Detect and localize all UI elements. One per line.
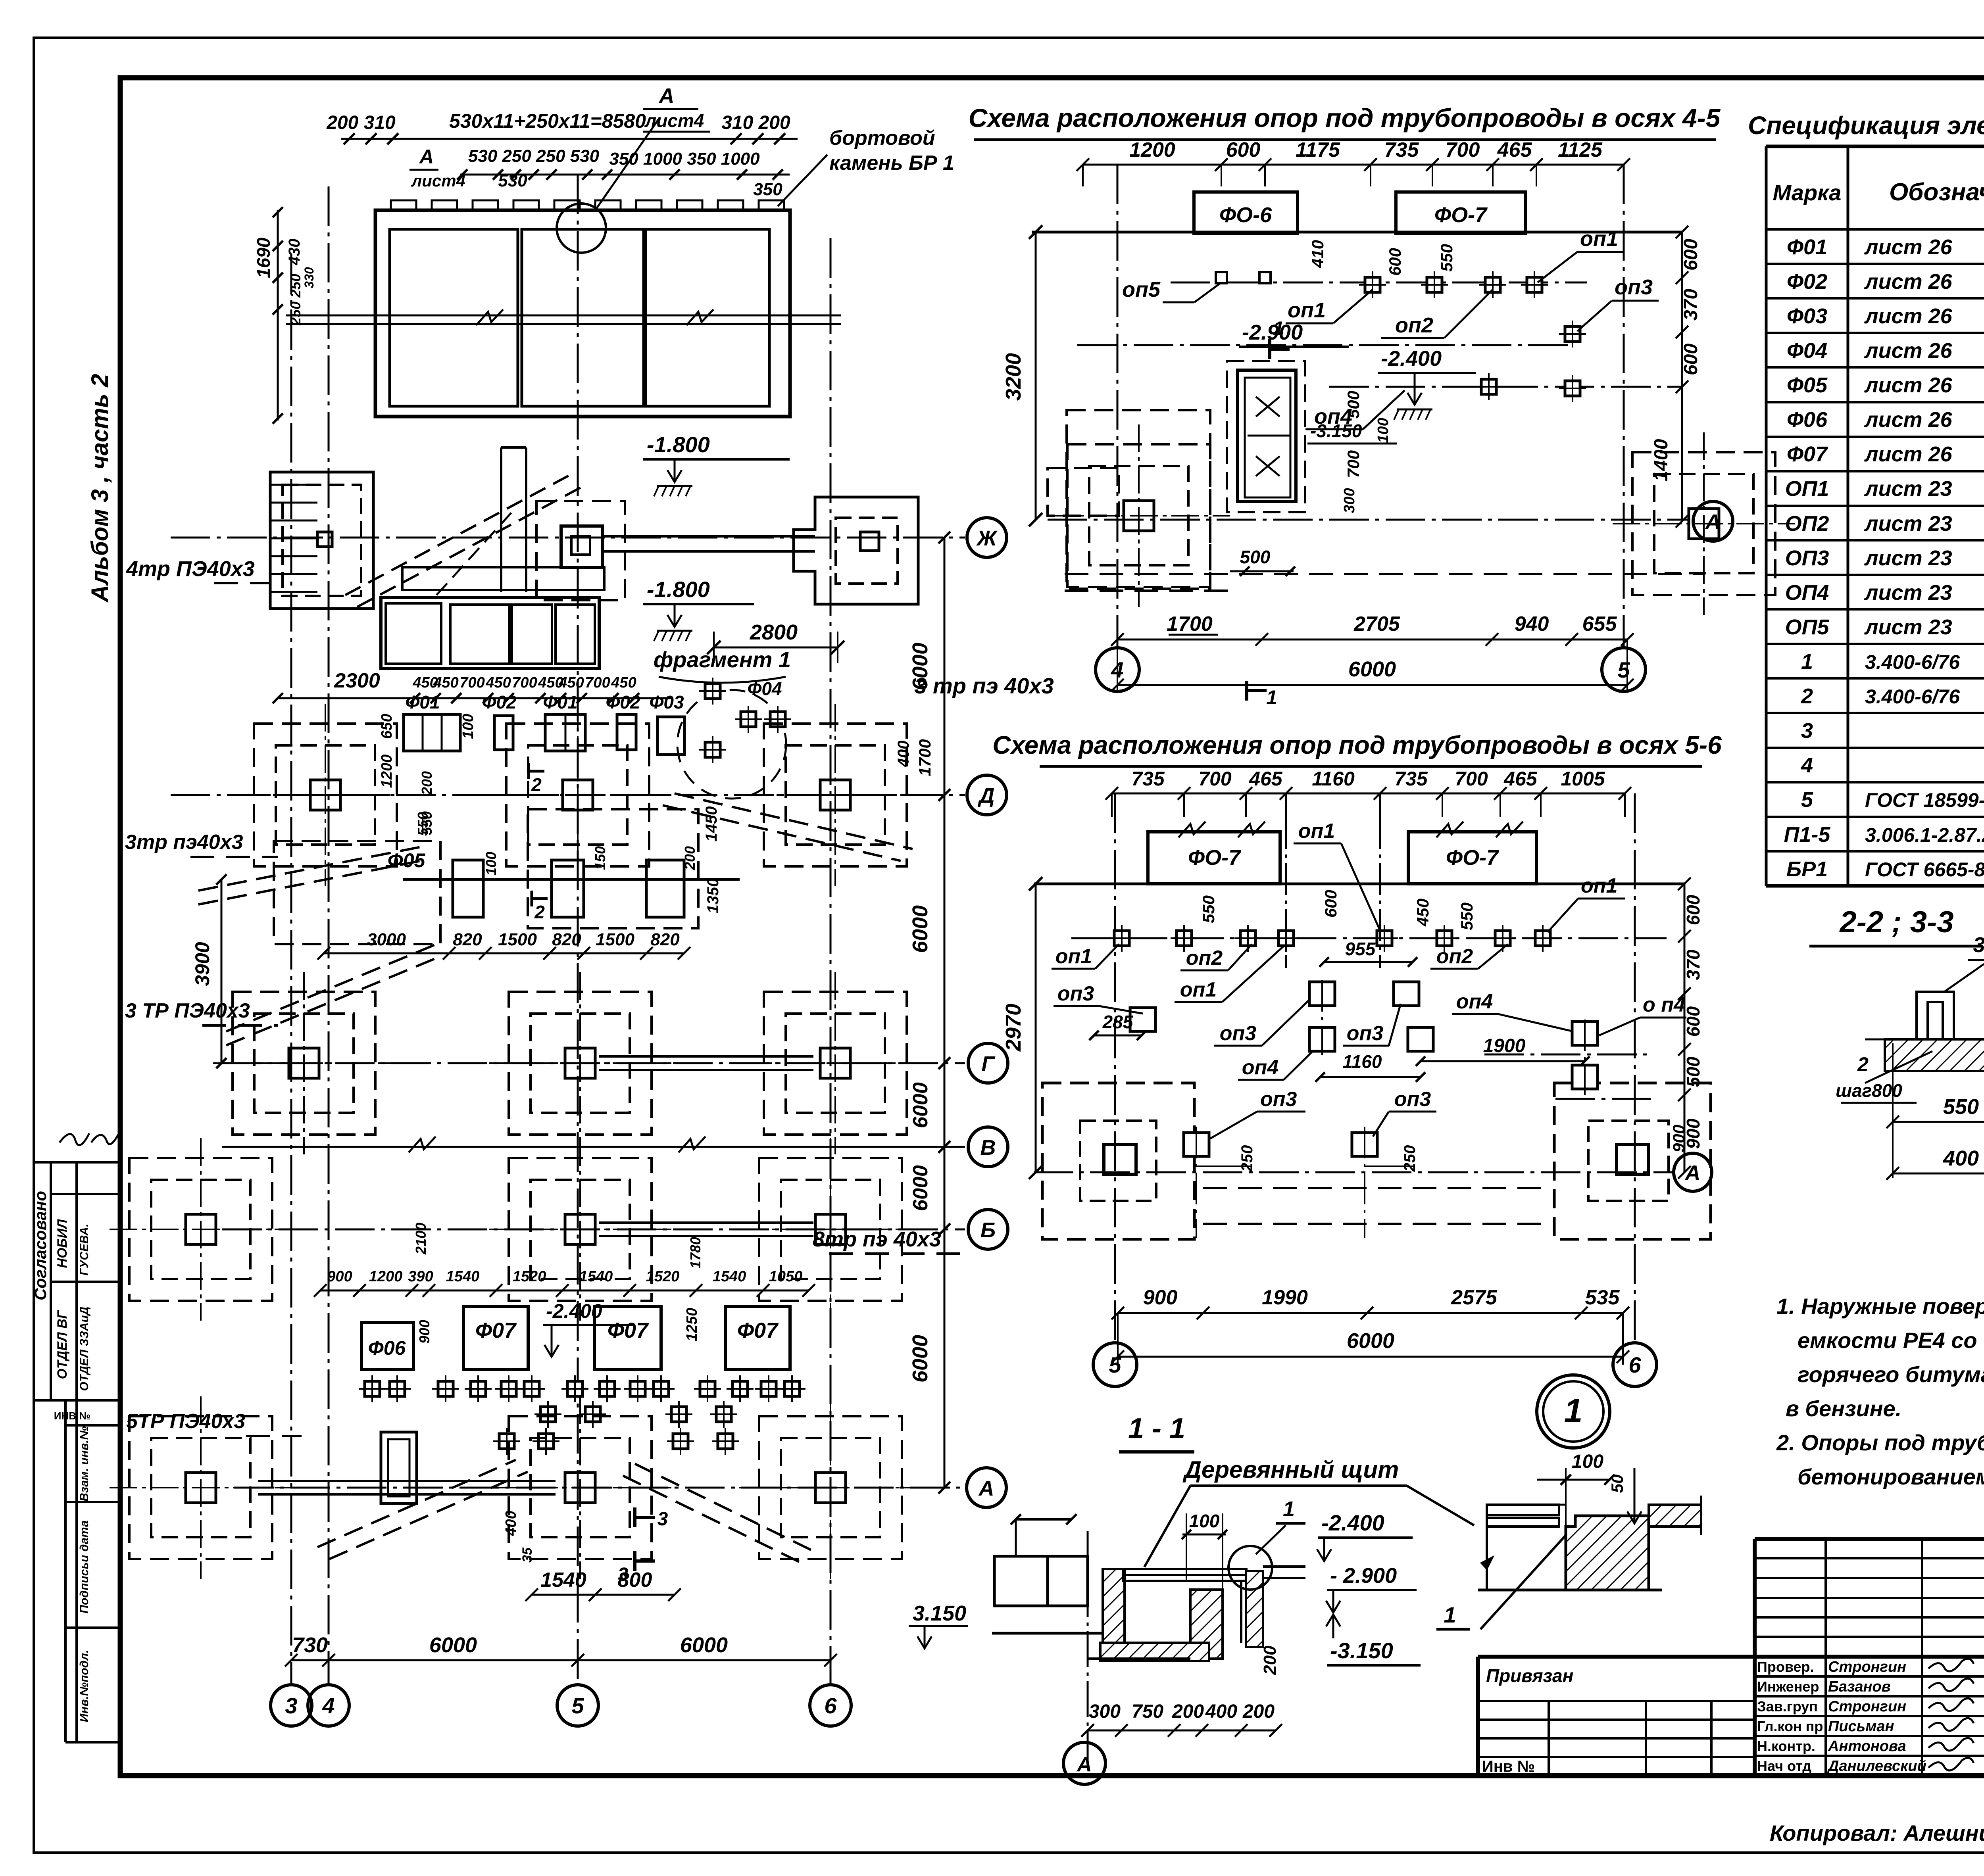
svg-text:- 2.900: - 2.900 [1330,1564,1397,1588]
svg-text:300: 300 [1089,1701,1121,1722]
svg-text:600: 600 [1680,239,1701,271]
svg-text:2100: 2100 [413,1223,429,1255]
svg-text:700: 700 [459,674,484,691]
svg-text:3.150: 3.150 [913,1601,966,1625]
svg-text:650: 650 [379,714,395,739]
svg-text:оп1: оп1 [1298,820,1335,843]
svg-text:Марка: Марка [1773,180,1842,205]
svg-text:550: 550 [1199,895,1218,923]
svg-text:1200: 1200 [1129,138,1175,161]
svg-text:800: 800 [618,1569,652,1592]
svg-text:оп3: оп3 [1347,1022,1384,1045]
svg-text:820: 820 [552,930,581,949]
svg-text:2800: 2800 [750,620,798,644]
svg-text:лист 26: лист 26 [1864,442,1953,466]
svg-text:Ф06: Ф06 [368,1337,406,1359]
svg-text:430: 430 [286,239,303,266]
svg-text:1690: 1690 [253,237,274,278]
svg-text:100: 100 [460,714,477,739]
svg-text:1700: 1700 [915,739,934,776]
svg-text:Ф02: Ф02 [606,692,640,712]
svg-text:оп1: оп1 [1180,978,1217,1001]
svg-text:2705: 2705 [1353,613,1400,636]
svg-text:1: 1 [1801,650,1813,674]
svg-text:ФО-7: ФО-7 [1434,203,1488,227]
svg-text:Спецификация элементов к сх: Спецификация элементов к схеме расположе… [1748,111,1984,140]
svg-text:600: 600 [1386,248,1404,276]
svg-text:100: 100 [483,852,499,876]
svg-text:1540: 1540 [446,1268,480,1285]
svg-text:5: 5 [571,1693,584,1718]
svg-text:820: 820 [650,930,680,949]
svg-text:530: 530 [498,171,527,190]
svg-text:-2.400: -2.400 [1381,347,1442,371]
svg-text:100: 100 [1375,418,1392,443]
svg-text:-2.400: -2.400 [546,1300,602,1322]
svg-text:3.400-6/76: 3.400-6/76 [1865,685,1960,708]
svg-text:450: 450 [433,674,458,691]
svg-text:-2.900: -2.900 [1242,321,1303,344]
svg-text:Провер.: Провер. [1757,1659,1814,1675]
svg-text:4: 4 [322,1693,335,1718]
svg-text:Стронгин: Стронгин [1828,1698,1906,1715]
svg-text:лист 26: лист 26 [1864,339,1953,363]
svg-text:735: 735 [1394,768,1428,790]
svg-text:-1.800: -1.800 [647,577,710,602]
svg-text:465: 465 [1249,768,1283,790]
svg-text:ОП1: ОП1 [1785,477,1829,501]
svg-text:оп3: оп3 [1260,1088,1297,1111]
svg-text:1125: 1125 [1558,138,1603,161]
svg-text:Согласовано: Согласовано [31,1191,50,1300]
svg-text:820: 820 [453,930,482,949]
svg-text:А: А [1684,1161,1701,1185]
svg-text:1: 1 [1283,1497,1295,1521]
svg-text:горячего битума по грунтов: горячего битума по грунтовке из битума, … [1798,1362,1984,1387]
svg-text:Ф07: Ф07 [475,1319,517,1342]
svg-text:ОТДЕЛ ЗЗАиД: ОТДЕЛ ЗЗАиД [78,1307,91,1391]
svg-text:700: 700 [1198,768,1232,790]
svg-text:лист 26: лист 26 [1864,373,1953,397]
svg-text:700: 700 [585,674,610,691]
svg-text:ОП5: ОП5 [1785,615,1830,639]
svg-text:1500: 1500 [596,930,634,949]
svg-text:ИНВ №: ИНВ № [54,1410,90,1422]
svg-text:2575: 2575 [1451,1286,1498,1309]
svg-text:200: 200 [1260,1646,1280,1675]
svg-text:450: 450 [485,674,511,691]
svg-text:6000: 6000 [1348,657,1396,681]
svg-text:700: 700 [1446,138,1480,161]
svg-text:оп4: оп4 [1456,990,1493,1013]
svg-text:Деревянный щит: Деревянный щит [1182,1456,1399,1483]
svg-text:лист4: лист4 [644,110,704,131]
svg-text:ОП4: ОП4 [1785,581,1829,605]
svg-text:300: 300 [1341,488,1358,513]
svg-text:1900: 1900 [1483,1035,1526,1056]
svg-text:1200: 1200 [369,1268,403,1285]
svg-text:600: 600 [1683,1006,1703,1037]
svg-text:500: 500 [1344,391,1363,419]
svg-text:1050: 1050 [769,1268,803,1285]
svg-text:1: 1 [1444,1602,1456,1627]
svg-text:655: 655 [1582,613,1617,636]
svg-text:оп4: оп4 [1242,1056,1279,1079]
svg-text:900: 900 [1683,1118,1703,1149]
svg-text:5: 5 [1801,788,1813,812]
svg-text:700: 700 [512,674,537,691]
svg-text:оп2: оп2 [1395,313,1433,337]
svg-text:2-2 ; 3-3: 2-2 ; 3-3 [1839,905,1953,939]
svg-text:3000: 3000 [367,930,406,949]
svg-text:Н.контр.: Н.контр. [1757,1738,1815,1754]
svg-text:370: 370 [1680,289,1701,321]
svg-text:1. Наружные поверхности кирп: 1. Наружные поверхности кирпичных стен и… [1776,1294,1984,1319]
svg-text:ГОСТ 18599-83: ГОСТ 18599-83 [1865,789,1984,811]
svg-text:200 310: 200 310 [326,112,396,133]
svg-text:900: 900 [327,1268,352,1285]
svg-text:3 ТР ПЭ40х3: 3 ТР ПЭ40х3 [125,999,250,1022]
svg-text:250: 250 [287,301,304,326]
svg-text:Г: Г [981,1052,996,1076]
svg-text:Зав.груп: Зав.груп [1757,1698,1818,1715]
svg-text:600: 600 [1226,138,1261,161]
svg-text:1540: 1540 [713,1268,746,1285]
svg-text:Нач отд: Нач отд [1757,1758,1811,1774]
svg-text:465: 465 [1503,768,1538,790]
svg-text:3.006.1-2.87.2-1: 3.006.1-2.87.2-1 [1865,824,1984,846]
svg-text:4тр ПЭ40х3: 4тр ПЭ40х3 [126,557,255,581]
svg-text:550: 550 [1457,902,1476,930]
svg-text:ОТДЕЛ ВГ: ОТДЕЛ ВГ [55,1310,70,1379]
svg-text:1160: 1160 [1312,768,1355,790]
svg-text:390: 390 [408,1268,433,1285]
svg-text:Б: Б [980,1218,996,1242]
svg-text:940: 940 [1515,613,1549,636]
svg-text:оп1: оп1 [1055,945,1092,968]
svg-text:Обозначение: Обозначение [1889,179,1984,206]
svg-text:Ф07: Ф07 [1787,442,1828,466]
svg-text:Ф01: Ф01 [543,692,577,712]
svg-text:оп3: оп3 [1394,1088,1431,1111]
svg-text:3200: 3200 [1002,353,1025,401]
svg-text:100: 100 [1189,1511,1220,1531]
svg-text:фрагмент 1: фрагмент 1 [654,647,791,672]
svg-text:ФО-7: ФО-7 [1446,846,1500,870]
svg-text:А: А [419,146,434,168]
svg-text:-3.150: -3.150 [1310,421,1362,441]
svg-text:5ТР ПЭ40х3: 5ТР ПЭ40х3 [126,1410,245,1433]
svg-text:оп3: оп3 [1615,275,1653,299]
svg-text:ФО-7: ФО-7 [1188,846,1242,870]
svg-text:500: 500 [1683,1056,1703,1087]
svg-text:530 250 250 530: 530 250 250 530 [468,146,600,166]
svg-text:450: 450 [1413,899,1432,927]
svg-text:1: 1 [1564,1392,1583,1429]
svg-text:6000: 6000 [908,905,932,953]
svg-text:735: 735 [1384,138,1419,161]
svg-text:400: 400 [1943,1146,1979,1170]
svg-text:700: 700 [1455,768,1488,790]
svg-text:лист 26: лист 26 [1864,408,1953,432]
svg-text:Ф05: Ф05 [388,849,426,872]
svg-text:350 1000 350 1000: 350 1000 350 1000 [609,149,760,169]
svg-text:Ф02: Ф02 [482,692,516,712]
svg-text:2: 2 [1801,684,1813,708]
svg-text:П1-5: П1-5 [1784,823,1831,847]
svg-text:550: 550 [415,812,431,836]
svg-text:Базанов: Базанов [1828,1678,1891,1695]
svg-text:Ф03: Ф03 [1787,304,1827,328]
svg-text:Схема расположения опор под: Схема расположения опор под трубопроводы… [969,103,1721,132]
svg-text:285: 285 [1102,1012,1134,1032]
svg-text:НОБИЛ: НОБИЛ [55,1219,70,1268]
svg-text:Ф04: Ф04 [1787,339,1827,363]
svg-text:1160: 1160 [1343,1051,1382,1072]
svg-text:3 тр пэ 40х3: 3 тр пэ 40х3 [914,673,1054,698]
svg-text:530х11+250х11=8580: 530х11+250х11=8580 [449,110,646,132]
svg-text:Антонова: Антонова [1828,1738,1906,1755]
svg-text:Инв.№подл.: Инв.№подл. [78,1650,91,1722]
svg-text:250: 250 [1238,1145,1256,1172]
svg-text:оп2: оп2 [1436,945,1473,968]
svg-text:Ф06: Ф06 [1787,408,1828,432]
svg-text:6: 6 [824,1693,837,1718]
svg-text:2: 2 [531,774,542,795]
svg-text:1 - 1: 1 - 1 [1128,1413,1185,1444]
svg-text:лист 26: лист 26 [1864,270,1953,294]
svg-text:Письман: Письман [1828,1718,1894,1735]
svg-text:35: 35 [520,1547,535,1563]
svg-text:50: 50 [1608,1475,1626,1493]
svg-text:1250: 1250 [684,1308,700,1342]
svg-text:5: 5 [1617,657,1630,682]
svg-text:200: 200 [1172,1701,1204,1722]
svg-text:Ф01: Ф01 [1787,235,1827,259]
svg-text:Копировал: Алешникова: Копировал: Алешникова [1770,1820,1984,1845]
svg-text:-1.800: -1.800 [647,432,710,457]
svg-text:лист 23: лист 23 [1864,581,1952,605]
svg-text:700: 700 [1344,450,1363,478]
svg-text:лист 23: лист 23 [1864,546,1952,570]
svg-text:1520: 1520 [513,1268,546,1285]
svg-text:А: А [658,84,675,108]
svg-text:465: 465 [1497,138,1532,161]
svg-text:оп2: оп2 [1186,947,1223,970]
svg-text:2300: 2300 [334,669,380,692]
svg-text:в бензине.: в бензине. [1786,1396,1901,1421]
svg-text:Схема расположения опор под: Схема расположения опор под трубопроводы… [992,731,1722,759]
svg-text:лист 23: лист 23 [1864,615,1952,639]
svg-text:3тр пэ40х3: 3тр пэ40х3 [125,831,243,854]
svg-text:370: 370 [1683,949,1703,980]
svg-text:оп1: оп1 [1581,874,1617,897]
svg-text:3.4: 3.4 [1973,933,1984,957]
svg-text:350: 350 [753,180,782,199]
svg-text:200: 200 [1242,1701,1275,1722]
svg-text:730: 730 [292,1633,328,1657]
svg-text:ОП3: ОП3 [1785,546,1829,570]
svg-text:310 200: 310 200 [721,112,790,133]
svg-text:450: 450 [611,674,636,691]
svg-text:Д: Д [978,784,995,808]
svg-text:1540: 1540 [540,1569,586,1592]
svg-text:3: 3 [285,1693,297,1718]
svg-text:оп5: оп5 [1122,278,1161,301]
svg-text:6000: 6000 [909,1082,932,1128]
svg-text:В: В [980,1136,996,1160]
svg-text:Ф07: Ф07 [737,1319,779,1342]
svg-text:Взам. инв.№: Взам. инв.№ [78,1426,91,1502]
svg-text:Ф05: Ф05 [1787,373,1828,397]
svg-text:8тр пэ 40х3: 8тр пэ 40х3 [813,1227,941,1251]
svg-text:1005: 1005 [1561,768,1605,790]
svg-text:Гл.кон пр: Гл.кон пр [1757,1718,1823,1734]
svg-text:900: 900 [416,1320,433,1344]
svg-text:Инженер: Инженер [1757,1678,1819,1695]
svg-text:лист4: лист4 [411,171,465,190]
svg-text:600: 600 [1683,895,1703,925]
svg-text:оп3: оп3 [1057,982,1094,1005]
svg-text:6000: 6000 [908,1335,932,1383]
svg-text:3.400-6/76: 3.400-6/76 [1865,651,1960,673]
svg-text:400: 400 [1205,1701,1237,1722]
svg-text:200: 200 [682,846,698,870]
svg-text:1: 1 [1273,317,1284,340]
svg-text:1500: 1500 [498,930,537,949]
svg-text:оп1: оп1 [1288,298,1326,322]
svg-text:Альбом 3 , часть 2: Альбом 3 , часть 2 [87,374,113,603]
svg-text:лист 26: лист 26 [1864,304,1953,328]
svg-text:250: 250 [1401,1145,1419,1172]
svg-text:Ф07: Ф07 [608,1319,649,1342]
svg-text:1: 1 [1266,686,1277,709]
svg-text:2970: 2970 [1002,1004,1025,1052]
svg-text:4: 4 [1801,753,1813,777]
svg-text:1520: 1520 [646,1268,680,1285]
svg-text:ФО-6: ФО-6 [1219,203,1272,227]
svg-text:2: 2 [1857,1053,1869,1075]
svg-text:2. Опоры под трубопроводы в: 2. Опоры под трубопроводы выполнять одно… [1776,1430,1984,1455]
svg-text:550: 550 [1437,244,1456,272]
svg-text:6000: 6000 [1347,1329,1394,1353]
svg-text:6000: 6000 [680,1633,728,1657]
svg-text:ГОСТ 6665-82: ГОСТ 6665-82 [1865,858,1984,881]
svg-text:емкости РЕ4 со стороны гр: емкости РЕ4 со стороны грунта обмазать д… [1798,1328,1984,1353]
svg-text:735: 735 [1131,768,1165,790]
svg-text:ГУСЕВА.: ГУСЕВА. [78,1224,91,1276]
svg-text:А: А [1076,1753,1092,1776]
svg-text:250: 250 [287,274,304,298]
svg-text:А: А [978,1477,994,1500]
svg-text:1990: 1990 [1262,1286,1308,1309]
svg-text:камень БР 1: камень БР 1 [829,152,954,175]
svg-text:450: 450 [558,674,584,691]
svg-text:оп1: оп1 [1580,227,1618,251]
svg-text:лист 26: лист 26 [1864,235,1953,259]
svg-text:550: 550 [1943,1095,1979,1119]
svg-text:600: 600 [1680,344,1701,375]
svg-text:3: 3 [657,1509,668,1530]
svg-text:Подписьи дата: Подписьи дата [78,1521,91,1614]
svg-text:-3.150: -3.150 [1330,1638,1393,1663]
svg-text:БР1: БР1 [1786,857,1828,881]
svg-text:1540: 1540 [579,1268,613,1285]
svg-text:Ф01: Ф01 [405,692,440,712]
svg-text:3900: 3900 [191,942,213,986]
svg-text:6000: 6000 [909,1165,932,1211]
svg-text:1350: 1350 [704,878,722,914]
svg-text:150: 150 [592,846,608,870]
svg-text:535: 535 [1585,1286,1620,1309]
svg-text:955: 955 [1345,939,1376,959]
svg-text:Ф03: Ф03 [649,692,684,712]
svg-text:Инв №: Инв № [1482,1758,1535,1775]
svg-text:-2.400: -2.400 [1321,1510,1384,1535]
svg-text:Данилевский: Данилевский [1827,1758,1926,1774]
svg-text:бетонированием пола, бетон: бетонированием пола, бетон В 7,5. [1798,1464,1984,1489]
svg-text:6000: 6000 [429,1633,477,1657]
svg-text:Ж: Ж [976,526,998,550]
svg-text:Ф02: Ф02 [1787,270,1827,294]
svg-text:лист 23: лист 23 [1864,512,1952,536]
svg-text:3: 3 [1801,719,1813,743]
svg-text:330: 330 [302,267,316,288]
svg-text:1200: 1200 [379,755,395,788]
svg-text:1450: 1450 [703,806,720,842]
svg-text:900: 900 [1143,1286,1178,1309]
svg-text:750: 750 [1132,1701,1163,1722]
svg-text:500: 500 [1240,547,1271,567]
svg-text:лист 23: лист 23 [1864,477,1952,501]
svg-text:1175: 1175 [1296,138,1340,161]
svg-text:1780: 1780 [687,1237,704,1269]
svg-text:оп3: оп3 [1220,1022,1257,1045]
svg-text:бортовой: бортовой [829,127,935,150]
svg-text:Привязан: Привязан [1486,1665,1573,1686]
svg-text:2: 2 [534,902,545,922]
svg-text:400: 400 [895,741,912,768]
svg-text:600: 600 [1321,890,1340,918]
svg-text:6: 6 [1628,1352,1641,1377]
svg-text:200: 200 [419,771,435,795]
svg-text:1700: 1700 [1167,613,1213,636]
svg-text:410: 410 [1308,240,1327,268]
svg-text:о п4: о п4 [1643,993,1685,1016]
svg-text:400: 400 [503,1511,519,1536]
svg-text:Стронгин: Стронгин [1828,1659,1906,1675]
svg-text:100: 100 [1572,1451,1603,1472]
